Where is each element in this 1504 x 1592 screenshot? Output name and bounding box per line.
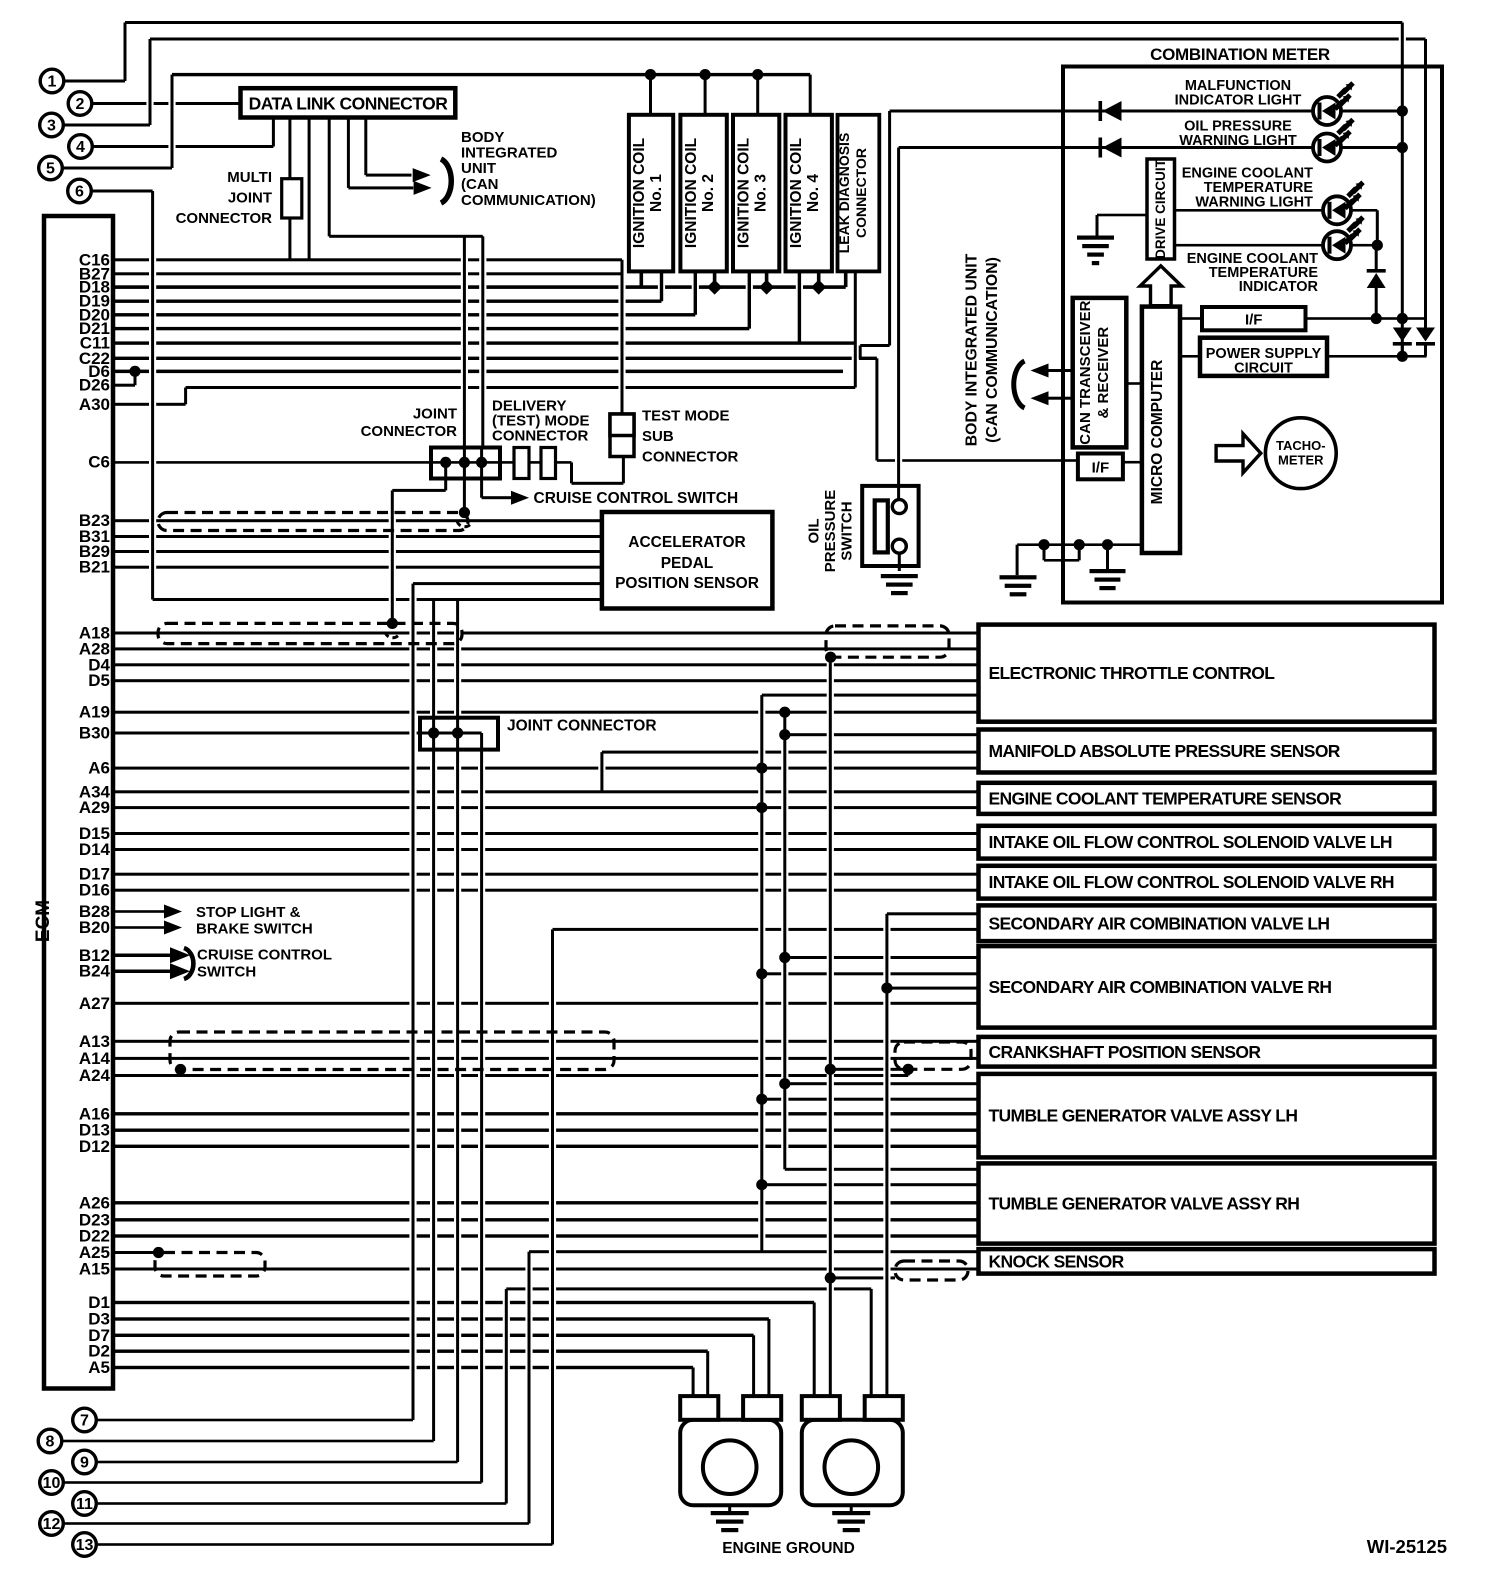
svg-text:CONNECTOR: CONNECTOR bbox=[853, 148, 869, 238]
svg-text:POSITION SENSOR: POSITION SENSOR bbox=[615, 575, 759, 592]
svg-text:IGNITION COIL: IGNITION COIL bbox=[683, 138, 700, 248]
svg-text:SWITCH: SWITCH bbox=[197, 964, 256, 981]
svg-text:A19: A19 bbox=[79, 703, 110, 722]
svg-text:(CAN COMMUNICATION): (CAN COMMUNICATION) bbox=[984, 257, 1001, 443]
svg-text:A15: A15 bbox=[79, 1260, 110, 1279]
svg-text:INTAKE OIL FLOW CONTROL SOLENO: INTAKE OIL FLOW CONTROL SOLENOID VALVE R… bbox=[989, 872, 1394, 892]
svg-text:MICRO COMPUTER: MICRO COMPUTER bbox=[1149, 360, 1166, 505]
svg-text:LEAK DIAGNOSIS: LEAK DIAGNOSIS bbox=[836, 133, 852, 254]
svg-text:CRUISE CONTROL SWITCH: CRUISE CONTROL SWITCH bbox=[534, 490, 739, 507]
svg-text:B20: B20 bbox=[79, 918, 110, 937]
svg-text:A24: A24 bbox=[79, 1066, 111, 1085]
svg-text:TEST MODE: TEST MODE bbox=[642, 408, 730, 425]
svg-text:D12: D12 bbox=[79, 1137, 110, 1156]
svg-text:SWITCH: SWITCH bbox=[839, 501, 856, 560]
svg-text:CONNECTOR: CONNECTOR bbox=[492, 428, 589, 445]
svg-text:JOINT: JOINT bbox=[413, 406, 457, 423]
svg-text:WARNING LIGHT: WARNING LIGHT bbox=[1195, 195, 1313, 211]
svg-text:12: 12 bbox=[43, 1516, 61, 1533]
svg-text:D16: D16 bbox=[79, 881, 110, 900]
svg-text:No. 1: No. 1 bbox=[648, 174, 665, 212]
svg-text:No. 3: No. 3 bbox=[753, 174, 770, 212]
svg-text:MULTI: MULTI bbox=[227, 169, 272, 186]
svg-text:No. 4: No. 4 bbox=[805, 174, 822, 212]
svg-text:INTAKE OIL FLOW CONTROL SOLENO: INTAKE OIL FLOW CONTROL SOLENOID VALVE L… bbox=[989, 832, 1392, 852]
svg-text:I/F: I/F bbox=[1245, 312, 1263, 329]
svg-text:JOINT: JOINT bbox=[228, 190, 272, 207]
svg-text:BODY: BODY bbox=[461, 129, 504, 146]
svg-text:ECM: ECM bbox=[33, 900, 54, 942]
svg-text:7: 7 bbox=[80, 1413, 89, 1430]
svg-text:PEDAL: PEDAL bbox=[661, 555, 714, 572]
svg-text:ENGINE COOLANT TEMPERATURE SEN: ENGINE COOLANT TEMPERATURE SENSOR bbox=[989, 788, 1343, 808]
svg-text:No. 2: No. 2 bbox=[700, 174, 717, 212]
svg-text:B24: B24 bbox=[79, 962, 111, 981]
svg-text:IGNITION COIL: IGNITION COIL bbox=[631, 138, 648, 248]
svg-text:CONNECTOR: CONNECTOR bbox=[642, 449, 739, 466]
svg-text:OIL: OIL bbox=[806, 519, 823, 544]
svg-text:A27: A27 bbox=[79, 994, 110, 1013]
svg-text:D5: D5 bbox=[88, 671, 110, 690]
svg-text:13: 13 bbox=[76, 1537, 94, 1554]
svg-text:5: 5 bbox=[46, 161, 55, 178]
svg-text:JOINT CONNECTOR: JOINT CONNECTOR bbox=[507, 718, 657, 735]
svg-text:CAN TRANSCEIVER: CAN TRANSCEIVER bbox=[1077, 300, 1094, 444]
svg-text:WARNING LIGHT: WARNING LIGHT bbox=[1179, 133, 1297, 149]
svg-text:A30: A30 bbox=[79, 395, 110, 414]
svg-text:INDICATOR LIGHT: INDICATOR LIGHT bbox=[1175, 93, 1302, 109]
svg-text:METER: METER bbox=[1278, 453, 1324, 468]
svg-text:3: 3 bbox=[47, 118, 56, 135]
svg-text:COMMUNICATION): COMMUNICATION) bbox=[461, 192, 596, 209]
svg-text:INDICATOR: INDICATOR bbox=[1239, 279, 1319, 295]
svg-text:SECONDARY AIR COMBINATION VALV: SECONDARY AIR COMBINATION VALVE LH bbox=[989, 913, 1330, 933]
svg-text:CONNECTOR: CONNECTOR bbox=[176, 210, 273, 227]
svg-text:A6: A6 bbox=[88, 759, 110, 778]
svg-text:11: 11 bbox=[76, 1496, 93, 1513]
svg-text:TUMBLE GENERATOR VALVE ASSY LH: TUMBLE GENERATOR VALVE ASSY LH bbox=[989, 1106, 1298, 1126]
svg-text:& RECEIVER: & RECEIVER bbox=[1095, 327, 1112, 419]
svg-text:9: 9 bbox=[80, 1455, 89, 1472]
svg-text:CIRCUIT: CIRCUIT bbox=[1234, 361, 1293, 377]
svg-text:DATA LINK CONNECTOR: DATA LINK CONNECTOR bbox=[249, 94, 449, 114]
svg-text:IGNITION COIL: IGNITION COIL bbox=[736, 138, 753, 248]
svg-text:1: 1 bbox=[48, 74, 57, 91]
svg-text:ACCELERATOR: ACCELERATOR bbox=[628, 534, 745, 551]
svg-text:I/F: I/F bbox=[1092, 460, 1110, 477]
svg-text:IGNITION COIL: IGNITION COIL bbox=[788, 138, 805, 248]
svg-text:MANIFOLD ABSOLUTE PRESSURE SEN: MANIFOLD ABSOLUTE PRESSURE SENSOR bbox=[989, 741, 1341, 761]
svg-text:ELECTRONIC THROTTLE CONTROL: ELECTRONIC THROTTLE CONTROL bbox=[989, 663, 1276, 683]
svg-text:SECONDARY AIR COMBINATION VALV: SECONDARY AIR COMBINATION VALVE RH bbox=[989, 977, 1332, 997]
svg-text:6: 6 bbox=[75, 184, 84, 201]
svg-text:TUMBLE GENERATOR VALVE ASSY RH: TUMBLE GENERATOR VALVE ASSY RH bbox=[989, 1194, 1300, 1214]
svg-text:(CAN: (CAN bbox=[461, 176, 499, 193]
svg-text:2: 2 bbox=[76, 96, 85, 113]
svg-text:PRESSURE: PRESSURE bbox=[822, 490, 839, 573]
svg-text:B30: B30 bbox=[79, 724, 110, 743]
svg-text:COMBINATION METER: COMBINATION METER bbox=[1150, 45, 1330, 64]
svg-text:A5: A5 bbox=[88, 1358, 110, 1377]
svg-text:SUB: SUB bbox=[642, 428, 674, 445]
svg-text:STOP LIGHT &: STOP LIGHT & bbox=[196, 904, 301, 921]
svg-text:BRAKE SWITCH: BRAKE SWITCH bbox=[196, 921, 313, 938]
svg-text:A29: A29 bbox=[79, 798, 110, 817]
svg-text:CRUISE CONTROL: CRUISE CONTROL bbox=[197, 947, 332, 964]
svg-text:DRIVE CIRCUIT: DRIVE CIRCUIT bbox=[1153, 158, 1168, 259]
svg-text:B21: B21 bbox=[79, 558, 110, 577]
svg-text:D14: D14 bbox=[79, 840, 111, 859]
svg-text:BODY INTEGRATED UNIT: BODY INTEGRATED UNIT bbox=[964, 253, 981, 446]
svg-text:C6: C6 bbox=[88, 453, 110, 472]
svg-text:CRANKSHAFT POSITION SENSOR: CRANKSHAFT POSITION SENSOR bbox=[989, 1042, 1262, 1062]
svg-text:ENGINE GROUND: ENGINE GROUND bbox=[722, 1540, 855, 1557]
svg-text:INTEGRATED: INTEGRATED bbox=[461, 145, 558, 162]
svg-text:8: 8 bbox=[46, 1434, 55, 1451]
svg-text:4: 4 bbox=[76, 139, 85, 156]
svg-text:UNIT: UNIT bbox=[461, 160, 496, 177]
svg-text:WI-25125: WI-25125 bbox=[1367, 1536, 1447, 1557]
svg-text:D26: D26 bbox=[79, 376, 110, 395]
svg-text:TACHO-: TACHO- bbox=[1276, 438, 1326, 453]
svg-text:CONNECTOR: CONNECTOR bbox=[361, 423, 458, 440]
svg-text:KNOCK SENSOR: KNOCK SENSOR bbox=[989, 1251, 1125, 1271]
svg-text:10: 10 bbox=[43, 1475, 61, 1492]
